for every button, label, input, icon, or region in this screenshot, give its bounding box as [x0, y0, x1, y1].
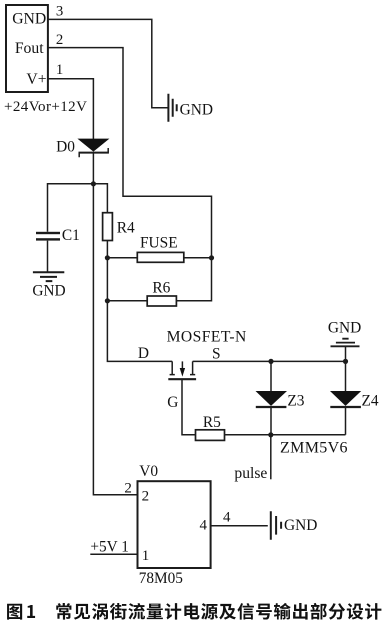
svg-text:C1: C1: [62, 227, 80, 244]
svg-text:D: D: [138, 345, 149, 362]
svg-text:2: 2: [124, 480, 132, 496]
svg-text:4: 4: [200, 518, 208, 534]
svg-text:Z4: Z4: [362, 393, 379, 410]
svg-text:Z3: Z3: [287, 393, 304, 410]
svg-text:GND: GND: [32, 283, 65, 300]
svg-text:R6: R6: [152, 279, 170, 296]
svg-text:1: 1: [142, 548, 150, 564]
svg-text:Fout: Fout: [15, 40, 44, 57]
svg-text:MOSFET-N: MOSFET-N: [167, 329, 247, 346]
svg-text:V+: V+: [26, 71, 46, 88]
svg-text:FUSE: FUSE: [140, 235, 178, 252]
svg-text:S: S: [212, 345, 221, 362]
svg-text:+24Vor+12V: +24Vor+12V: [4, 99, 87, 115]
svg-text:V0: V0: [139, 463, 158, 480]
svg-text:G: G: [167, 394, 178, 411]
svg-text:GND: GND: [12, 11, 46, 28]
svg-text:2: 2: [142, 489, 150, 505]
svg-text:2: 2: [56, 32, 63, 48]
svg-text:R5: R5: [203, 414, 221, 431]
svg-text:GND: GND: [180, 101, 213, 118]
svg-text:GND: GND: [328, 320, 361, 337]
svg-text:R4: R4: [117, 219, 135, 236]
svg-text:D0: D0: [56, 139, 75, 156]
svg-text:pulse: pulse: [234, 465, 267, 482]
svg-text:78M05: 78M05: [139, 570, 184, 587]
svg-text:GND: GND: [284, 517, 317, 534]
svg-text:4: 4: [223, 510, 231, 526]
svg-text:1: 1: [56, 62, 63, 78]
svg-text:+5V 1: +5V 1: [90, 539, 129, 556]
svg-text:ZMM5V6: ZMM5V6: [280, 440, 348, 457]
svg-text:3: 3: [56, 3, 63, 19]
